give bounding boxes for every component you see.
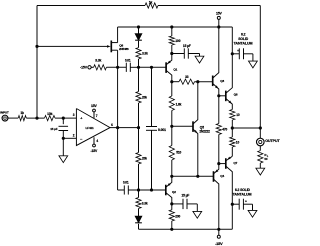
svg-text:1.8k: 1.8k — [176, 102, 182, 106]
resistor R feedback 1k — [145, 0, 158, 8]
terminal -15V left — [80, 66, 91, 70]
node source — [116, 66, 119, 69]
node summing junction — [35, 117, 38, 120]
node — [150, 66, 153, 69]
wire — [259, 163, 261, 168]
wire Q5 base row — [172, 125, 193, 127]
node rail 100 — [170, 25, 173, 28]
capacitor 15uF bottom — [182, 193, 190, 209]
capacitor 6.2 tantalum top — [232, 33, 253, 62]
wire — [231, 120, 233, 128]
resistor 3.3k bottom — [136, 198, 148, 209]
ground 15uF bottom — [193, 211, 202, 218]
wire — [138, 59, 140, 92]
svg-text:-15V: -15V — [80, 66, 88, 70]
transistor Q8 2N5486 — [107, 41, 129, 53]
node rail 15V — [217, 25, 220, 28]
node — [137, 188, 140, 191]
node Q3 emitter — [217, 94, 220, 97]
capacitor 15 pF — [50, 126, 68, 131]
node Q4 emitter — [217, 162, 220, 165]
node — [137, 66, 140, 69]
wire — [138, 41, 140, 48]
svg-text:TANTALUM: TANTALUM — [233, 192, 252, 196]
svg-text:20k: 20k — [142, 157, 147, 161]
svg-text:+: + — [245, 199, 247, 203]
svg-text:TANTALUM: TANTALUM — [234, 41, 253, 45]
svg-text:15V: 15V — [91, 104, 98, 108]
diode D2 bottom — [135, 216, 142, 223]
node Q1 emitter — [170, 52, 173, 55]
wire cap top lead — [62, 118, 64, 124]
svg-text:OUTPUT: OUTPUT — [265, 139, 280, 143]
svg-text:0.001: 0.001 — [158, 128, 166, 132]
node Q5 emitter — [196, 175, 199, 178]
svg-text:3.3k: 3.3k — [142, 52, 148, 56]
resistor 200 — [169, 204, 180, 229]
svg-text:10k: 10k — [47, 112, 53, 116]
wire — [171, 45, 173, 54]
svg-text:200: 200 — [175, 214, 180, 218]
transistor Q6 — [226, 27, 238, 110]
svg-text:3.3k: 3.3k — [142, 201, 148, 205]
wire — [138, 224, 140, 229]
op-amp U1 LF411 — [73, 109, 113, 146]
wire — [138, 209, 140, 217]
wire op-amp output — [110, 127, 139, 129]
svg-text:510: 510 — [176, 150, 181, 154]
wire -15V rail — [139, 228, 233, 230]
diode D1 top — [135, 34, 142, 41]
resistor 1k input — [18, 111, 26, 121]
wire base row top — [139, 66, 167, 68]
wire Q6 base row — [219, 95, 226, 97]
node rail diode — [137, 25, 140, 28]
node row2 left — [170, 175, 173, 178]
wire pin7 — [94, 112, 98, 118]
wire input — [8, 117, 18, 119]
svg-text:SOLID: SOLID — [238, 37, 248, 41]
svg-text:1k: 1k — [20, 111, 24, 115]
resistor 10 lower — [230, 128, 240, 156]
wire — [171, 27, 173, 36]
svg-text:Q1: Q1 — [173, 68, 177, 72]
transistor Q5 2N2222 — [193, 82, 210, 177]
wire to ground — [62, 138, 64, 156]
terminal 15V supply — [216, 11, 223, 27]
svg-text:Q6: Q6 — [234, 92, 238, 96]
ground input — [59, 156, 68, 163]
node tantalum top tap — [231, 52, 234, 55]
svg-text:33: 33 — [185, 75, 189, 79]
transistor Q3 — [213, 27, 225, 96]
svg-text:LF411: LF411 — [85, 126, 93, 130]
wire to op-amp pin3 — [55, 117, 76, 119]
svg-text:-15V: -15V — [90, 149, 98, 153]
ground RL — [256, 168, 265, 175]
resistor RL 50 — [258, 146, 269, 163]
capacitor 0.01 bottom — [123, 181, 129, 195]
wire — [172, 203, 183, 205]
wire — [128, 189, 138, 191]
wire — [130, 66, 138, 68]
transistor Q2 — [166, 176, 176, 204]
wire drain up — [117, 27, 119, 43]
svg-text:3.3k: 3.3k — [95, 59, 101, 63]
wire — [188, 54, 199, 57]
capacitor 0.01 top — [125, 59, 131, 72]
ground tantalum bottom — [248, 210, 257, 217]
transistor Q4 — [214, 164, 225, 230]
svg-text:INPUT: INPUT — [0, 110, 9, 114]
svg-text:-15V: -15V — [215, 241, 223, 246]
svg-text:2N2222: 2N2222 — [199, 129, 210, 133]
wire pin4 — [94, 137, 98, 144]
svg-text:0.01: 0.01 — [123, 181, 129, 185]
svg-text:470: 470 — [222, 127, 227, 131]
wire feedback top — [37, 5, 260, 7]
wire bottom corner — [118, 189, 125, 191]
wire — [195, 81, 213, 83]
wire — [106, 66, 126, 68]
terminal -15V op-amp — [90, 144, 98, 153]
resistor 3.3k left — [94, 59, 107, 70]
capacitor 0.001 — [146, 127, 166, 133]
resistor 10k — [45, 112, 56, 121]
svg-text:15V: 15V — [216, 11, 223, 15]
resistor 20k upper — [136, 92, 147, 104]
wire driver row bottom — [172, 175, 213, 177]
node mid — [137, 126, 140, 129]
svg-text:50: 50 — [264, 157, 268, 161]
ground tantalum top — [249, 61, 258, 68]
node tantalum bottom tap — [231, 203, 234, 206]
svg-text:15 μF: 15 μF — [183, 44, 191, 48]
svg-text:Q2: Q2 — [172, 190, 176, 194]
node noninverting input — [62, 117, 65, 120]
svg-text:1k: 1k — [149, 0, 153, 4]
wire — [172, 81, 179, 83]
capacitor 15uF top — [183, 44, 191, 59]
node Q2 collector — [170, 202, 173, 205]
wire — [138, 103, 140, 153]
resistor 3.3k top — [136, 48, 148, 59]
svg-text:20k: 20k — [142, 96, 147, 100]
wire summing vertical — [36, 6, 38, 119]
wire gate row — [37, 45, 108, 47]
wire input to junction — [26, 117, 44, 119]
wire — [91, 66, 94, 68]
node Q5 base — [170, 125, 173, 128]
node output — [259, 126, 262, 129]
wire — [151, 67, 153, 126]
node output stage — [231, 126, 234, 129]
wire cap bottom lead — [62, 131, 64, 139]
wire — [187, 204, 197, 212]
resistor 1.8k — [169, 82, 181, 127]
wire — [138, 164, 140, 198]
node Q1 collector — [170, 80, 173, 83]
svg-text:10: 10 — [236, 113, 240, 117]
node rail 200 — [170, 228, 173, 231]
wire right rail to output — [259, 6, 261, 129]
wire pin2 row — [63, 137, 76, 139]
svg-text:15 μF: 15 μF — [182, 193, 190, 197]
svg-text:Q7: Q7 — [233, 161, 237, 165]
terminal 15V op-amp — [91, 104, 98, 112]
node Q5 collector — [196, 80, 199, 83]
wire +15V rail — [118, 26, 233, 28]
ground 15uF top — [195, 56, 204, 63]
resistor 470 — [216, 96, 227, 164]
node output tap — [116, 126, 119, 129]
wire — [151, 130, 153, 190]
terminal INPUT jack — [0, 110, 9, 121]
resistor 33 — [179, 75, 195, 84]
terminal OUTPUT jack — [257, 128, 281, 146]
node inverting input — [62, 137, 65, 140]
svg-text:15 pF: 15 pF — [50, 127, 58, 131]
svg-text:Q4: Q4 — [220, 174, 224, 178]
wire output row — [232, 127, 260, 129]
svg-text:Q3: Q3 — [220, 79, 224, 83]
transistor Q7 — [226, 156, 238, 229]
resistor 10 upper — [230, 110, 240, 121]
terminal -15V supply — [215, 229, 223, 246]
node — [150, 188, 153, 191]
node rail -15V — [217, 228, 220, 231]
wire base row bottom — [139, 189, 166, 191]
wire — [138, 27, 140, 34]
transistor Q1 — [166, 54, 178, 82]
svg-text:10: 10 — [236, 140, 240, 144]
svg-text:100: 100 — [175, 39, 180, 43]
wire source down — [117, 50, 119, 190]
svg-text:0.01: 0.01 — [125, 59, 131, 63]
resistor 20k lower — [136, 153, 147, 165]
capacitor 6.2 tantalum bottom — [232, 188, 252, 210]
node gate tap — [35, 45, 38, 48]
resistor 510 — [169, 126, 181, 176]
svg-text:+: + — [237, 49, 239, 53]
svg-text:2N5486: 2N5486 — [119, 47, 129, 51]
wire Q7 base row — [219, 163, 226, 165]
wire — [172, 53, 185, 55]
resistor 100 — [169, 36, 181, 45]
